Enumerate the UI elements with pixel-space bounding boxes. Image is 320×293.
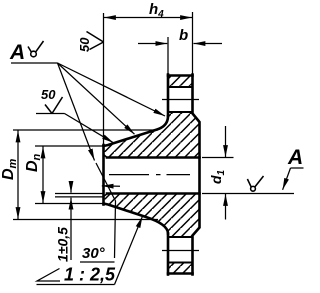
disc left face (top) <box>167 75 170 117</box>
roughness check on end face ext line (50 top) <box>87 32 104 50</box>
disc right face + raised face <box>193 75 200 275</box>
taper note shelf <box>37 284 115 286</box>
svg-text:1±0,5: 1±0,5 <box>55 227 71 262</box>
svg-text:50: 50 <box>41 87 56 102</box>
extension line: chamfer face end <box>55 196 104 198</box>
bore end chamfer 30 deg (bottom) <box>104 194 108 197</box>
hub top profile: pipe OD, taper, fillet <box>104 116 169 146</box>
bolt hole axis (top) <box>162 99 199 101</box>
extension line d1 top <box>202 157 234 159</box>
leader 30deg: steep line from shelf to chamfer area <box>96 163 116 258</box>
shelf under 30deg <box>80 261 115 263</box>
bolt hole axis (bottom) <box>162 250 199 252</box>
extension line: pipe end face up to h4 <box>103 13 105 146</box>
disc top edge <box>168 74 193 77</box>
hatch: flange disc top ring band <box>168 76 193 88</box>
hub bottom profile <box>104 204 169 234</box>
extension line Dm bottom <box>13 219 158 221</box>
bore end chamfer 30 deg (top) <box>104 155 108 159</box>
extension line: disc right face up to h4 <box>192 12 194 76</box>
extension line: bore chamfer edge <box>55 193 104 195</box>
svg-text:b: b <box>179 27 188 44</box>
section arrow A shelf <box>291 167 304 169</box>
svg-text:30°: 30° <box>82 245 106 262</box>
section arrow A (right): slant line <box>283 168 291 190</box>
hatch: bottom pipe wall + hub + disc lower body <box>104 194 200 238</box>
dimension b left arrow <box>138 43 167 45</box>
svg-text:1 : 2,5: 1 : 2,5 <box>64 265 116 285</box>
dimension 1+-0.5 upper arrow <box>70 183 72 193</box>
svg-text:A: A <box>9 41 25 64</box>
extension line Dm top <box>13 129 158 131</box>
dimension 1+-0.5 lower arrow <box>70 198 72 260</box>
disc bottom edge <box>168 272 193 275</box>
pipe weld end face <box>102 145 105 205</box>
bore bottom edge <box>107 192 200 195</box>
taper symbol triangle <box>37 269 60 282</box>
extension line Dn top <box>35 145 104 147</box>
svg-text:50: 50 <box>77 37 92 52</box>
dimension Dm <box>17 131 19 220</box>
bolt hole edges <box>168 87 193 263</box>
roughness check on shelf (50 middle) <box>45 97 63 114</box>
leader line under A (top left) <box>11 62 58 64</box>
roughness 50 leader to pipe OD <box>65 114 114 143</box>
centerline of bore <box>109 174 190 176</box>
roughness symbol next to A (top left): circle + check <box>28 41 44 57</box>
dimension d1 lower arrow <box>225 194 227 220</box>
dimension b right arrow <box>194 43 223 45</box>
fan leader 1 to disc face <box>58 63 166 116</box>
taper leader with arrow to bottom taper <box>115 216 143 284</box>
dimension d1 upper arrow <box>225 126 227 157</box>
bore top edge <box>107 156 200 159</box>
dimension Dn <box>42 147 44 204</box>
extension line: disc left face up for b <box>167 37 169 76</box>
fan leader 3 to bore chamfer <box>58 63 95 161</box>
dimension h4 <box>104 17 192 19</box>
wire: flange disc outline <box>104 75 200 275</box>
svg-text:A: A <box>287 146 303 169</box>
roughness symbol on d1 ext line (right): circle + check <box>247 176 263 191</box>
extension line Dn bottom <box>35 203 104 205</box>
extension line d1 bottom (long, to section arrow) <box>202 193 294 195</box>
fan leader 2 to taper <box>58 63 135 134</box>
hatch: flange disc bottom ring band <box>168 263 193 274</box>
leader arrow at bore end chamfer <box>102 185 120 187</box>
roughness 50 shelf (middle left) <box>36 113 65 115</box>
disc left face (bottom) <box>167 234 170 275</box>
hatch: top pipe wall + hub + disc upper body <box>104 112 200 158</box>
